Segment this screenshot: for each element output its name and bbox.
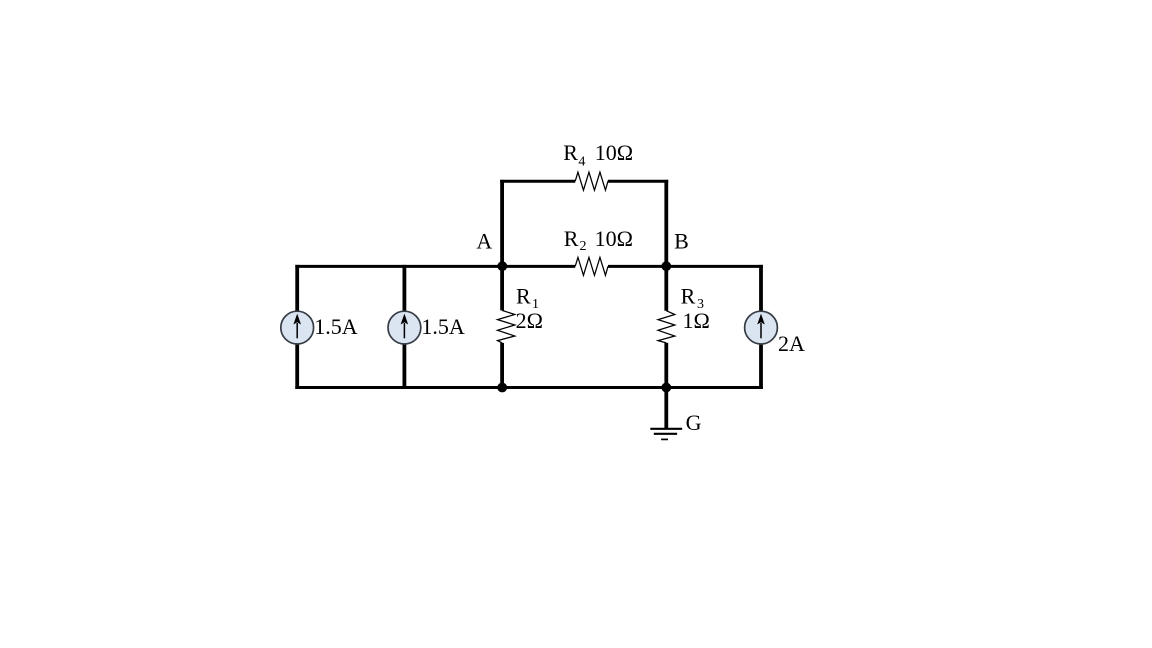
svg-text:R: R [563, 140, 578, 165]
wire: bottom bus [295, 386, 762, 389]
current source I2 1.5A [388, 311, 421, 344]
svg-text:1.5A: 1.5A [314, 314, 358, 339]
wire: top bus from left source to node B / right source [295, 265, 762, 268]
svg-text:4: 4 [578, 154, 585, 169]
ground symbol G [650, 429, 682, 440]
svg-text:B: B [674, 228, 689, 253]
wire: R1 branch upper stub [500, 265, 504, 311]
svg-text:10Ω: 10Ω [595, 140, 633, 165]
label R4 [563, 140, 633, 169]
resistor R2 zigzag (on top bus between A and B) [575, 257, 608, 275]
wire: node A up to R4 branch [500, 180, 504, 268]
resistor R3 zigzag [658, 311, 675, 343]
node B junction dot [661, 261, 671, 271]
node A junction dot [497, 261, 507, 271]
label R2 [564, 226, 633, 254]
svg-text:R: R [681, 283, 696, 308]
resistor R4 zigzag [575, 172, 608, 190]
current source I3 2A [745, 311, 778, 344]
wire: node B up to R4 branch [664, 180, 668, 268]
wire: left branch vertical (source I1) [295, 265, 299, 389]
wire: R4 branch top left segment [500, 180, 575, 183]
svg-text:1.5A: 1.5A [421, 314, 465, 339]
wire: R3 branch lower stub [664, 343, 668, 389]
wire: R1 branch lower stub [500, 343, 504, 389]
svg-text:R: R [516, 283, 531, 308]
svg-text:2Ω: 2Ω [516, 308, 543, 333]
current source I1 1.5A [281, 311, 314, 344]
svg-text:10Ω: 10Ω [595, 226, 633, 251]
svg-text:A: A [476, 228, 492, 253]
svg-text:1Ω: 1Ω [683, 308, 710, 333]
ground stem wire [664, 388, 668, 429]
svg-text:2A: 2A [778, 331, 805, 356]
wire: right branch vertical (source I3 2A) [759, 265, 763, 389]
label R1 [516, 283, 543, 333]
wire: R4 branch top right segment [608, 180, 668, 183]
wire: R3 branch upper stub [664, 265, 668, 311]
svg-text:2: 2 [580, 239, 587, 254]
junction dot bottom of R1 [497, 383, 507, 393]
label R3 [681, 283, 710, 333]
svg-text:G: G [686, 410, 702, 435]
resistor R1 zigzag [498, 310, 515, 343]
wire: second branch vertical (source I2) [402, 265, 406, 389]
svg-text:R: R [564, 226, 579, 251]
junction dot bottom of R3 / ground [661, 383, 671, 393]
